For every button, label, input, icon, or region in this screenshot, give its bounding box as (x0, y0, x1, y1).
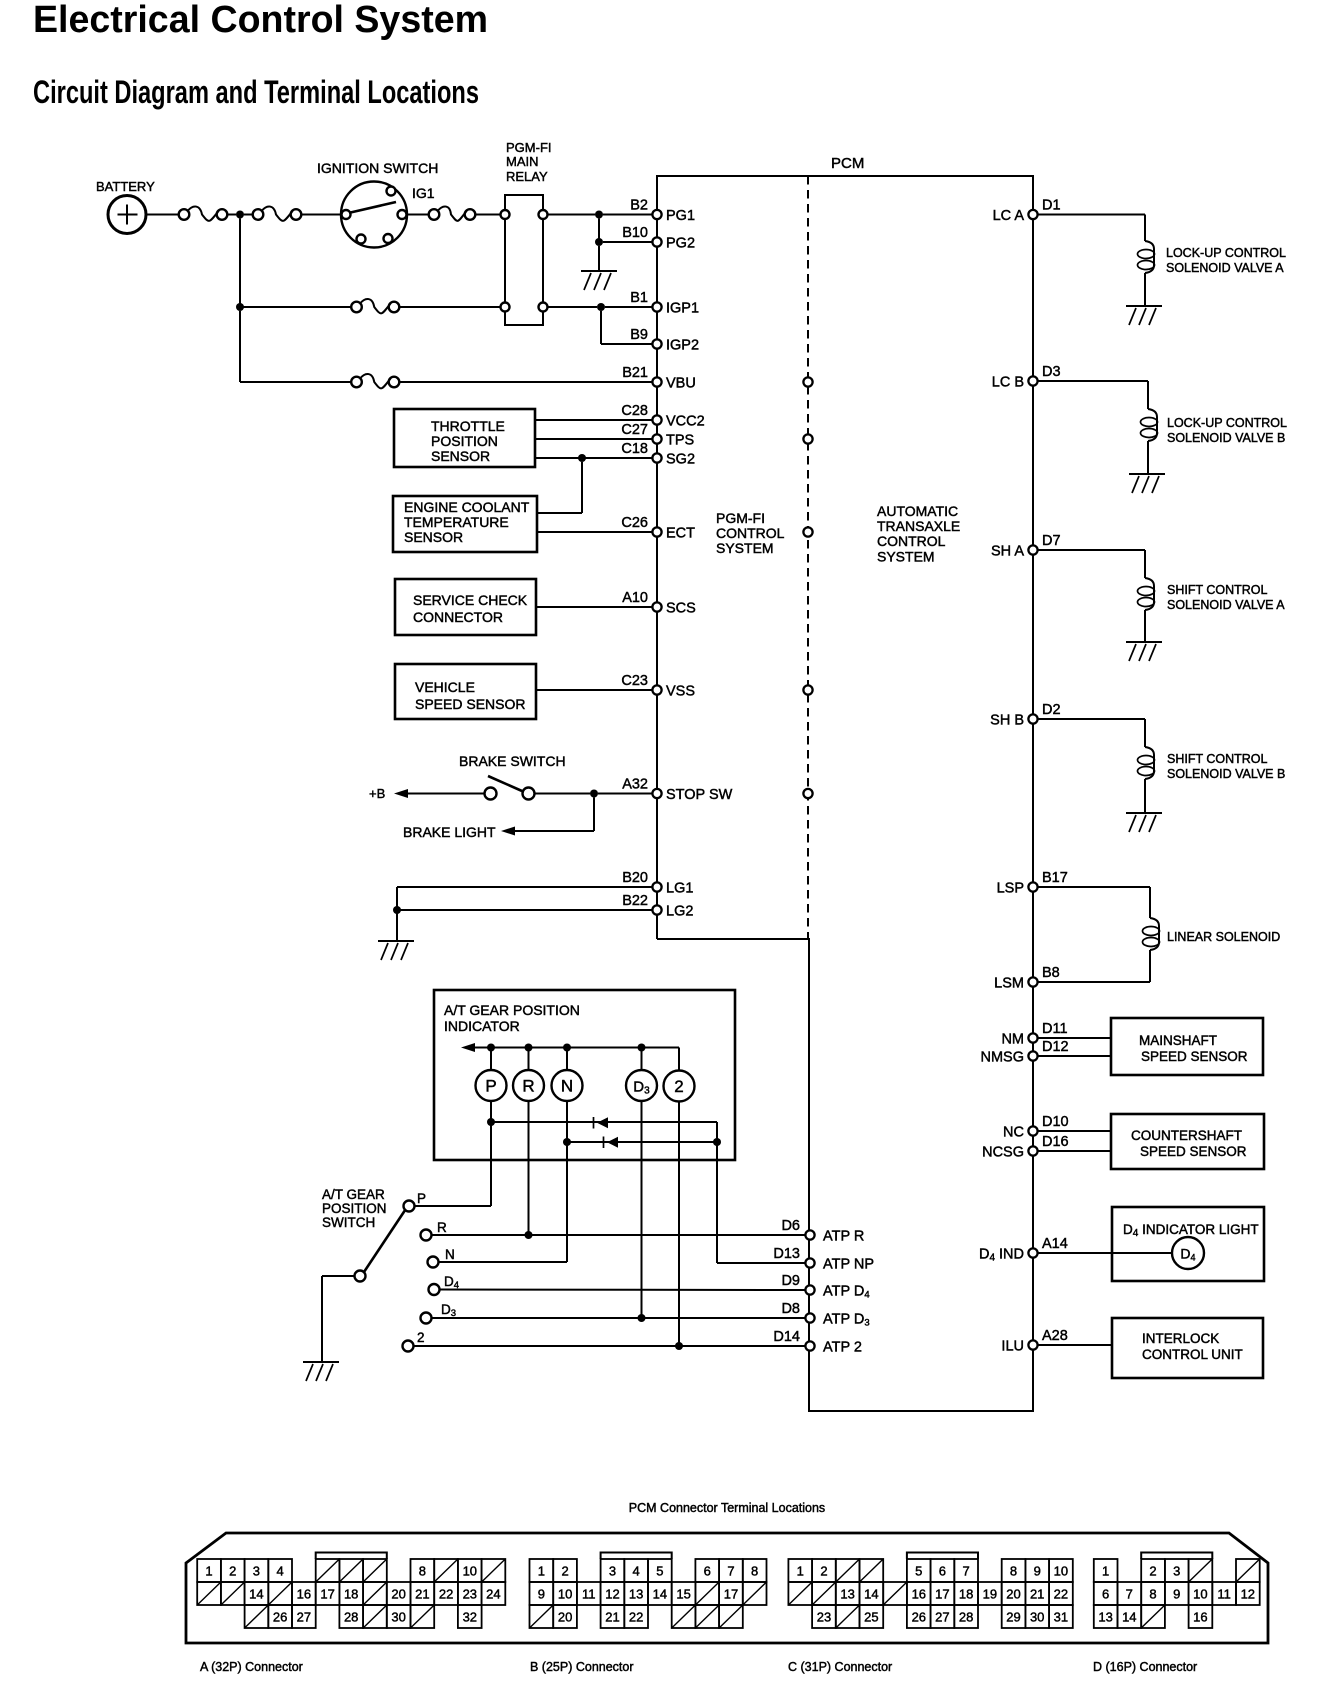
svg-text:8: 8 (419, 1564, 426, 1579)
arrow to brake light (501, 827, 515, 836)
svg-text:INDICATOR: INDICATOR (444, 1018, 520, 1034)
terminal B9 IGP2 (652, 339, 661, 348)
switch contact P (404, 1201, 415, 1212)
ground shift solenoid B (1126, 812, 1162, 814)
svg-text:16: 16 (297, 1587, 311, 1602)
wire D4 IND to indicator light (1038, 1252, 1173, 1254)
svg-text:D8: D8 (781, 1301, 800, 1317)
svg-text:B8: B8 (1042, 965, 1060, 981)
brake switch SW2 (485, 788, 497, 800)
terminal B2 PG1 (652, 210, 661, 219)
diode D2 on N line (603, 1137, 605, 1149)
svg-text:9: 9 (1173, 1587, 1180, 1602)
svg-text:PCM: PCM (831, 155, 864, 172)
svg-text:22: 22 (439, 1587, 453, 1602)
terminal D13 ATP NP (805, 1258, 814, 1267)
switch contact D4 (429, 1284, 440, 1295)
svg-text:B20: B20 (622, 870, 648, 886)
terminal B20 LG1 (652, 882, 661, 891)
svg-text:20: 20 (1006, 1587, 1020, 1602)
fuse 3 (429, 209, 440, 220)
terminal D3 LC B (1028, 376, 1037, 385)
terminal D9 ATP D (805, 1285, 814, 1294)
wire NCSG to countershaft speed sensor (1038, 1150, 1112, 1152)
wire LSP to linear solenoid (1038, 886, 1151, 888)
svg-text:2: 2 (820, 1564, 827, 1579)
svg-text:6: 6 (1102, 1587, 1109, 1602)
svg-text:2: 2 (229, 1564, 236, 1579)
svg-text:11: 11 (1217, 1587, 1231, 1602)
svg-text:ATP D4: ATP D4 (823, 1284, 870, 1301)
wire R lamp down to R line (528, 1101, 530, 1235)
wire node 3 to IGP1 (605, 306, 653, 308)
svg-text:BATTERY: BATTERY (96, 179, 155, 194)
svg-text:SPEED SENSOR: SPEED SENSOR (1140, 1144, 1247, 1159)
svg-text:13: 13 (1098, 1610, 1112, 1625)
wire IGP1 node down to VBU row (239, 311, 241, 382)
node N diode line (563, 1138, 571, 1146)
svg-text:1: 1 (205, 1564, 212, 1579)
connector C (31P) pin grid (788, 1553, 1072, 1629)
wire 2 contact to ATP 2 (414, 1345, 807, 1347)
svg-text:17: 17 (320, 1587, 334, 1602)
wire NMSG to mainshaft speed sensor (1038, 1055, 1112, 1057)
svg-text:1: 1 (797, 1564, 804, 1579)
wire ECT box to ECT (537, 531, 653, 533)
svg-text:28: 28 (959, 1610, 973, 1625)
wire node 1 down to IGP1 row (239, 219, 241, 308)
terminal D1 LC A (1028, 210, 1037, 219)
wire to PG2 (603, 241, 653, 243)
svg-text:24: 24 (486, 1587, 500, 1602)
svg-text:N: N (445, 1247, 455, 1262)
wire coil B to ground (1147, 441, 1149, 474)
svg-text:SYSTEM: SYSTEM (716, 540, 774, 556)
svg-text:31: 31 (1054, 1610, 1068, 1625)
node bus N (563, 1044, 571, 1052)
wire TPS box to TPS (535, 438, 653, 440)
svg-text:VEHICLE: VEHICLE (415, 679, 475, 695)
wire node 4 to STOP SW (598, 793, 653, 795)
svg-text:TRANSAXLE: TRANSAXLE (877, 518, 960, 534)
shift control solenoid valve B coil (1145, 747, 1154, 779)
svg-text:18: 18 (344, 1587, 358, 1602)
svg-text:A14: A14 (1042, 1236, 1068, 1252)
svg-text:LOCK-UP CONTROL: LOCK-UP CONTROL (1166, 246, 1286, 260)
terminal A28 ILU (1028, 1340, 1037, 1349)
terminal D6 ATP R (805, 1230, 814, 1239)
wire PG2 node to ground (598, 246, 600, 271)
wire relay to node 2 (548, 214, 596, 216)
wire battery to fuse 1 (146, 214, 179, 216)
PCM internal dashed divider (807, 176, 809, 939)
svg-text:CONTROL: CONTROL (716, 525, 785, 541)
svg-text:D (16P) Connector: D (16P) Connector (1093, 1660, 1197, 1674)
svg-text:16: 16 (912, 1587, 926, 1602)
service check connector box (395, 579, 536, 635)
wire bus to N lamp (566, 1048, 568, 1071)
svg-text:PGM-FI: PGM-FI (716, 510, 765, 526)
svg-text:2: 2 (417, 1330, 425, 1345)
svg-text:STOP SW: STOP SW (666, 787, 733, 803)
svg-text:25: 25 (864, 1610, 878, 1625)
svg-text:16: 16 (1193, 1610, 1207, 1625)
svg-text:LSM: LSM (994, 976, 1024, 992)
wire LC B to lock-up solenoid valve B (1038, 380, 1149, 382)
svg-text:C (31P) Connector: C (31P) Connector (788, 1660, 892, 1674)
svg-text:THROTTLE: THROTTLE (431, 418, 505, 434)
D4 indicator lamp (1172, 1237, 1204, 1269)
svg-text:4: 4 (632, 1564, 639, 1579)
wire NC to countershaft speed sensor (1038, 1130, 1112, 1132)
arrow at indicator feed bus (461, 1043, 475, 1052)
engine coolant temperature sensor box (393, 496, 537, 552)
svg-text:18: 18 (959, 1587, 973, 1602)
svg-text:15: 15 (676, 1587, 690, 1602)
svg-text:8: 8 (1149, 1587, 1156, 1602)
svg-text:ATP NP: ATP NP (823, 1257, 874, 1273)
PCM box outline (657, 176, 1033, 1411)
wire to fuse 4 (240, 306, 351, 308)
lock-up control solenoid valve B coil (1148, 409, 1157, 441)
node D3 line junction (638, 1314, 646, 1322)
svg-text:7: 7 (1126, 1587, 1133, 1602)
svg-text:PCM Connector Terminal Locatio: PCM Connector Terminal Locations (629, 1501, 825, 1515)
svg-text:TEMPERATURE: TEMPERATURE (404, 514, 509, 530)
svg-text:NM: NM (1001, 1032, 1024, 1048)
svg-text:COUNTERSHAFT: COUNTERSHAFT (1131, 1128, 1242, 1143)
svg-text:SOLENOID VALVE A: SOLENOID VALVE A (1167, 598, 1285, 612)
node 2 line junction (675, 1342, 683, 1350)
terminal D10 NC (1028, 1126, 1037, 1135)
svg-text:C28: C28 (621, 403, 648, 419)
ground below relay output (581, 270, 617, 272)
svg-text:D4: D4 (444, 1274, 459, 1291)
svg-text:2: 2 (1149, 1564, 1156, 1579)
wire to fuse 5 (240, 381, 351, 383)
connector D (16P) pin grid (1094, 1553, 1260, 1629)
indicator lamp N (552, 1070, 583, 1101)
wire D4 contact to ATP D4 (440, 1289, 807, 1292)
svg-text:LC B: LC B (992, 375, 1024, 391)
wire shift coil B to ground (1144, 779, 1146, 813)
svg-text:R: R (522, 1077, 534, 1096)
svg-text:A/T GEAR POSITION: A/T GEAR POSITION (444, 1002, 580, 1018)
svg-text:D2: D2 (1042, 702, 1061, 718)
node 3 junction (597, 303, 605, 311)
svg-text:27: 27 (297, 1610, 311, 1625)
ground shift solenoid A (1126, 641, 1162, 643)
dashed divider pass-through node VSS row (803, 685, 812, 694)
switch contact R (421, 1230, 432, 1241)
wire fuse 1 to node 1 (228, 214, 237, 216)
svg-text:22: 22 (629, 1610, 643, 1625)
svg-text:2: 2 (674, 1077, 683, 1096)
svg-text:IGP2: IGP2 (666, 338, 699, 354)
interlock control unit box (1112, 1318, 1263, 1378)
svg-text:N: N (561, 1077, 573, 1096)
svg-text:ENGINE COOLANT: ENGINE COOLANT (404, 499, 530, 515)
svg-text:14: 14 (249, 1587, 263, 1602)
indicator feed bus wire (474, 1047, 679, 1049)
countershaft speed sensor box (1111, 1114, 1264, 1169)
svg-text:A/T GEAR: A/T GEAR (322, 1187, 385, 1202)
svg-text:D12: D12 (1042, 1039, 1069, 1055)
svg-text:6: 6 (939, 1564, 946, 1579)
svg-text:D13: D13 (773, 1246, 800, 1262)
wire common contact to ground (322, 1275, 355, 1277)
linear solenoid coil (1150, 918, 1159, 950)
svg-text:28: 28 (344, 1610, 358, 1625)
svg-text:SHIFT CONTROL: SHIFT CONTROL (1167, 583, 1268, 597)
wire node 4 down to brake light (593, 798, 595, 832)
svg-text:D1: D1 (1042, 198, 1061, 214)
fuse 1 (179, 209, 190, 220)
svg-text:CONTROL UNIT: CONTROL UNIT (1142, 1347, 1243, 1362)
svg-text:8: 8 (751, 1564, 758, 1579)
svg-text:VBU: VBU (666, 376, 696, 392)
node bus R (525, 1044, 533, 1052)
wire fuse 2 to ignition switch (302, 214, 342, 216)
indicator lamp 2 (664, 1071, 695, 1102)
svg-text:CONNECTOR: CONNECTOR (413, 609, 503, 625)
svg-text:B (25P) Connector: B (25P) Connector (530, 1660, 634, 1674)
indicator lamp D3 (626, 1070, 657, 1101)
svg-text:14: 14 (653, 1587, 667, 1602)
svg-text:12: 12 (605, 1587, 619, 1602)
wire R contact to ATP R (432, 1234, 807, 1236)
svg-text:SH B: SH B (990, 713, 1024, 729)
svg-text:NC: NC (1003, 1125, 1024, 1141)
svg-text:ATP D3: ATP D3 (823, 1312, 870, 1329)
terminal B22 LG2 (652, 905, 661, 914)
svg-text:5: 5 (656, 1564, 663, 1579)
terminal B8 LSM (1028, 977, 1037, 986)
svg-text:SHIFT CONTROL: SHIFT CONTROL (1167, 752, 1268, 766)
svg-text:SENSOR: SENSOR (431, 448, 490, 464)
svg-text:9: 9 (1034, 1564, 1041, 1579)
fuse 2 (253, 209, 264, 220)
svg-text:D16: D16 (1042, 1134, 1069, 1150)
svg-text:26: 26 (273, 1610, 287, 1625)
svg-text:LINEAR SOLENOID: LINEAR SOLENOID (1167, 930, 1280, 944)
svg-text:MAINSHAFT: MAINSHAFT (1139, 1033, 1217, 1048)
svg-text:SG2: SG2 (666, 452, 695, 468)
fuse 5 (351, 377, 362, 388)
wire SH A to shift solenoid valve A (1038, 549, 1146, 551)
connector B (25P) pin grid (530, 1553, 767, 1629)
svg-text:20: 20 (558, 1610, 572, 1625)
terminal A10 SCS (652, 602, 661, 611)
terminal D8 ATP D (805, 1313, 814, 1322)
svg-text:5: 5 (915, 1564, 922, 1579)
ground for LG1/LG2 (378, 940, 414, 942)
PGM-FI main relay (505, 195, 543, 325)
svg-text:D7: D7 (1042, 533, 1061, 549)
throttle position sensor box (394, 409, 535, 467)
svg-text:3: 3 (1173, 1564, 1180, 1579)
svg-text:9: 9 (538, 1587, 545, 1602)
wire fuse 5 to VBU (399, 381, 653, 383)
svg-text:RELAY: RELAY (506, 169, 548, 184)
terminal D7 SH A (1028, 545, 1037, 554)
svg-text:D4 IND: D4 IND (979, 1247, 1024, 1264)
svg-text:ILU: ILU (1001, 1339, 1024, 1355)
wire node 3 down to IGP2 row (600, 311, 602, 344)
svg-text:6: 6 (704, 1564, 711, 1579)
svg-text:26: 26 (912, 1610, 926, 1625)
svg-text:B22: B22 (622, 893, 648, 909)
svg-text:2: 2 (561, 1564, 568, 1579)
svg-text:TPS: TPS (666, 433, 694, 449)
svg-text:SOLENOID VALVE B: SOLENOID VALVE B (1167, 431, 1285, 445)
terminal D16 NCSG (1028, 1146, 1037, 1155)
wire shift coil A to ground (1144, 610, 1146, 642)
terminal A32 STOP SW (652, 789, 661, 798)
lock-up control solenoid valve A coil (1145, 241, 1154, 273)
svg-text:B1: B1 (630, 290, 648, 306)
wire P contact to indicator (415, 1205, 492, 1207)
svg-text:SH A: SH A (991, 544, 1024, 560)
svg-text:ECT: ECT (666, 526, 695, 542)
terminal A14 D (1028, 1248, 1037, 1257)
wire LC A to lock-up solenoid valve A (1038, 214, 1146, 216)
svg-text:SWITCH: SWITCH (322, 1215, 375, 1230)
svg-text:NCSG: NCSG (982, 1145, 1024, 1161)
svg-text:3: 3 (609, 1564, 616, 1579)
svg-text:D10: D10 (1042, 1114, 1069, 1130)
terminal C28 VCC2 (652, 415, 661, 424)
diode line P to ATP NP (491, 1121, 717, 1123)
svg-text:CONTROL: CONTROL (877, 533, 946, 549)
node LG junction (393, 906, 401, 914)
wire TPS box to SG2 (535, 457, 653, 459)
svg-text:BRAKE LIGHT: BRAKE LIGHT (403, 824, 496, 840)
svg-text:D3: D3 (441, 1302, 456, 1319)
svg-text:10: 10 (1193, 1587, 1207, 1602)
svg-text:21: 21 (415, 1587, 429, 1602)
svg-text:SYSTEM: SYSTEM (877, 549, 935, 565)
ignition switch SW1 (341, 182, 407, 248)
svg-text:BRAKE SWITCH: BRAKE SWITCH (459, 753, 566, 769)
wire diode lines to ATP NP (716, 1122, 718, 1263)
svg-text:SCS: SCS (666, 601, 696, 617)
svg-text:13: 13 (629, 1587, 643, 1602)
svg-text:LOCK-UP CONTROL: LOCK-UP CONTROL (1167, 416, 1287, 430)
node R line junction (525, 1231, 533, 1239)
svg-text:21: 21 (605, 1610, 619, 1625)
connector housing outline (186, 1533, 1268, 1643)
svg-text:A (32P) Connector: A (32P) Connector (200, 1660, 303, 1674)
wire ILU to interlock control unit (1038, 1344, 1113, 1346)
svg-text:D9: D9 (781, 1273, 800, 1289)
wire fuse 4 to relay lower contacts (399, 306, 501, 308)
svg-text:LG1: LG1 (666, 881, 693, 897)
svg-text:D11: D11 (1042, 1021, 1068, 1037)
svg-text:21: 21 (1030, 1587, 1044, 1602)
node IGP1 junction (236, 303, 244, 311)
A/T gear position indicator box (434, 990, 735, 1160)
wire ignition switch to fuse 3 (407, 214, 430, 216)
svg-text:32: 32 (463, 1610, 477, 1625)
terminal D14 ATP 2 (805, 1341, 814, 1350)
svg-text:7: 7 (727, 1564, 734, 1579)
wire 2 lamp down to 2 line (678, 1102, 680, 1347)
node bus D3 (638, 1044, 646, 1052)
wire coil A to ground (1144, 273, 1146, 306)
svg-text:POSITION: POSITION (322, 1201, 387, 1216)
node SG2 junction (578, 454, 586, 462)
terminal C26 ECT (652, 527, 661, 536)
wire N lamp down to N line (566, 1101, 568, 1262)
wire node 2 down to PG2 node (598, 219, 600, 243)
wire node 2 to PG1 (603, 214, 653, 216)
svg-text:MAIN: MAIN (506, 154, 539, 169)
svg-text:A32: A32 (622, 777, 648, 793)
svg-text:AUTOMATIC: AUTOMATIC (877, 503, 958, 519)
wire linear solenoid to LSM (1149, 950, 1151, 982)
wire LG1 to ground leg (397, 886, 653, 888)
svg-text:8: 8 (1010, 1564, 1017, 1579)
svg-text:10: 10 (558, 1587, 572, 1602)
svg-text:+B: +B (369, 786, 385, 801)
wire SG2 node down to ECT sensor (581, 462, 583, 513)
connector A (32P) pin grid (197, 1553, 505, 1629)
svg-text:1: 1 (538, 1564, 545, 1579)
vehicle speed sensor box (395, 664, 536, 719)
node 1 junction (236, 211, 244, 219)
svg-text:Circuit Diagram and Terminal L: Circuit Diagram and Terminal Locations (33, 74, 479, 110)
svg-text:23: 23 (817, 1610, 831, 1625)
svg-text:SOLENOID VALVE A: SOLENOID VALVE A (1166, 261, 1284, 275)
svg-text:7: 7 (962, 1564, 969, 1579)
node 4 junction (590, 790, 598, 798)
svg-text:SERVICE CHECK: SERVICE CHECK (413, 592, 528, 608)
svg-text:NMSG: NMSG (981, 1050, 1025, 1066)
fuse 4 (351, 302, 362, 313)
svg-text:SENSOR: SENSOR (404, 529, 463, 545)
svg-text:14: 14 (1122, 1610, 1136, 1625)
switch arm (364, 1210, 406, 1273)
terminal B10 PG2 (652, 237, 661, 246)
mainshaft speed sensor box (1111, 1018, 1263, 1075)
svg-text:D14: D14 (773, 1329, 800, 1345)
svg-text:20: 20 (391, 1587, 405, 1602)
dashed divider pass-through node ECT row (803, 527, 812, 536)
svg-text:A28: A28 (1042, 1328, 1068, 1344)
svg-text:INTERLOCK: INTERLOCK (1142, 1331, 1219, 1346)
ground lock-up solenoid A (1126, 305, 1162, 307)
wire to IGP2 (601, 343, 653, 345)
svg-text:B10: B10 (622, 225, 648, 241)
svg-text:SOLENOID VALVE B: SOLENOID VALVE B (1167, 767, 1285, 781)
svg-text:VCC2: VCC2 (666, 414, 705, 430)
wire N contact to N lamp leg (439, 1261, 568, 1263)
svg-text:3: 3 (253, 1564, 260, 1579)
svg-text:P: P (417, 1191, 426, 1206)
wire NM to mainshaft speed sensor (1038, 1037, 1112, 1039)
terminal B1 IGP1 (652, 302, 661, 311)
switch contact 2 (403, 1341, 414, 1352)
switch common contact (355, 1271, 366, 1282)
svg-text:27: 27 (935, 1610, 949, 1625)
svg-text:POSITION: POSITION (431, 433, 498, 449)
wire fuse 3 to relay (475, 214, 501, 216)
dashed divider pass-through node TPS row (803, 434, 812, 443)
wire D3 contact to ATP D3 (432, 1317, 807, 1319)
terminal D12 NMSG (1028, 1051, 1037, 1060)
diode line N to ATP NP (567, 1141, 717, 1143)
